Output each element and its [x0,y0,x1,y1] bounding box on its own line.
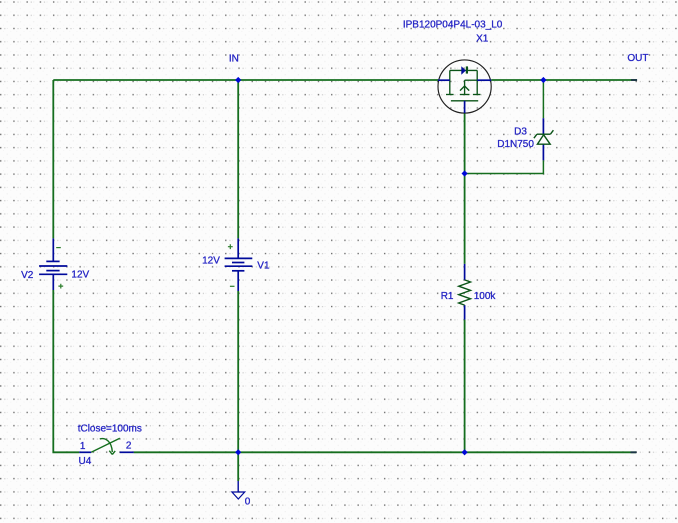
svg-text:X1: X1 [476,34,489,45]
svg-text:IPB120P04P4L-03_L0: IPB120P04P4L-03_L0 [403,19,503,30]
svg-text:IN: IN [229,53,239,64]
svg-text:R1: R1 [441,291,454,302]
svg-text:tClose=100ms: tClose=100ms [78,424,142,435]
svg-text:V1: V1 [257,261,270,272]
svg-text:D3: D3 [514,127,527,138]
svg-text:OUT: OUT [627,53,648,64]
svg-text:V2: V2 [21,270,34,281]
svg-text:D1N750: D1N750 [497,139,534,150]
svg-text:100k: 100k [474,291,497,302]
svg-text:12V: 12V [71,270,89,281]
svg-text:0: 0 [245,496,251,507]
svg-text:2: 2 [126,440,132,451]
svg-text:1: 1 [80,441,86,452]
svg-text:12V: 12V [202,256,220,267]
svg-text:U4: U4 [79,456,92,467]
